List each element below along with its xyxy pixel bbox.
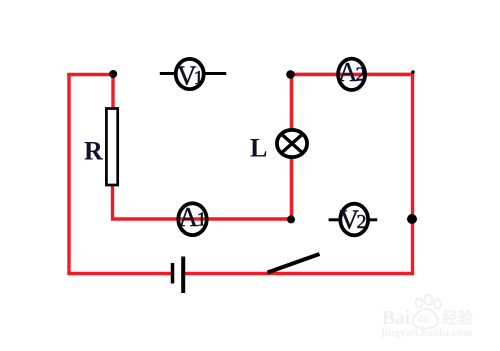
node junction dot right: [407, 214, 417, 224]
node junction dot top-middle: [286, 70, 295, 79]
resistor R: [106, 109, 117, 186]
watermark Baidu Jingyan logo: [380, 295, 474, 339]
wire resistor bottom to middle: [111, 184, 114, 221]
node junction dot top-left: [109, 70, 117, 78]
svg-text:R: R: [84, 137, 103, 166]
voltmeter V1 leads: [160, 72, 174, 75]
voltmeter V1: [176, 59, 204, 89]
switch S: [268, 254, 320, 273]
svg-text:du: du: [417, 314, 429, 325]
voltmeter V2: [340, 204, 368, 236]
wire top-right horizontal: [288, 73, 414, 77]
lamp L: [277, 130, 307, 157]
svg-text:经验: 经验: [442, 308, 474, 327]
wire bottom horizontal right of battery: [185, 272, 414, 275]
wire lamp branch upper: [290, 75, 294, 130]
wire junction to resistor top: [111, 73, 114, 110]
voltmeter V2 leads: [329, 218, 339, 221]
battery positive plate: [181, 257, 185, 294]
wire right vertical: [411, 73, 414, 275]
wire bottom horizontal left of battery: [68, 272, 172, 275]
battery negative plate: [171, 263, 175, 284]
svg-text:jingyan.baidu.com: jingyan.baidu.com: [380, 327, 473, 339]
wire lamp branch lower: [290, 157, 294, 219]
wire top-left horizontal: [67, 73, 114, 77]
wire middle horizontal: [111, 217, 293, 221]
wire left vertical: [67, 73, 70, 275]
svg-text:L: L: [250, 134, 267, 163]
node tiny dot top-right corner: [411, 70, 415, 74]
svg-text:Bai: Bai: [382, 308, 411, 329]
ammeter A2: [338, 59, 365, 90]
node junction dot middle: [287, 215, 295, 223]
ammeter A1: [178, 203, 206, 235]
